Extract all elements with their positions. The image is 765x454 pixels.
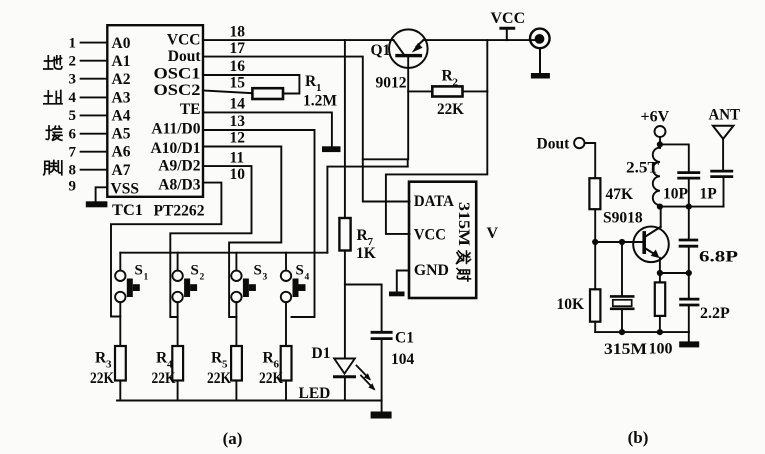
ground of circuit b (688, 332, 690, 341)
wire pin10 to S1 bottom (111, 183, 221, 317)
transistor Q1 circle (389, 29, 428, 68)
wire crystal bottom (621, 309, 623, 332)
inductor 2.5T coil (653, 147, 660, 206)
svg-text:2.2P: 2.2P (700, 305, 730, 322)
svg-text:15: 15 (230, 75, 246, 92)
LED D1 light arrows (357, 366, 370, 380)
pin 3 wire (81, 78, 108, 80)
wire VCC to R7 vertical (344, 40, 346, 218)
svg-text:10P: 10P (663, 186, 689, 203)
svg-text:D1: D1 (312, 345, 331, 362)
wire 2.2P bottom (688, 306, 690, 332)
wire R7 to LED anode (344, 251, 346, 359)
svg-text:VCC: VCC (491, 10, 526, 27)
output connector ring (530, 29, 550, 49)
transmitter module box 315M (409, 182, 476, 298)
crystal 315M plates (611, 295, 633, 298)
ground for TE (322, 146, 341, 152)
wire +6V down (659, 137, 661, 148)
svg-text:2: 2 (453, 77, 459, 89)
svg-text:(a): (a) (223, 429, 243, 448)
bottom rail of circuit a (117, 400, 382, 402)
resistor R4 body (172, 346, 183, 381)
antenna symbol (713, 126, 734, 139)
svg-text:GND: GND (414, 262, 449, 279)
resistor R1 body (252, 88, 283, 99)
svg-text:S: S (191, 263, 199, 279)
switch S4 (281, 253, 306, 346)
junction node crystal/rail (619, 329, 625, 335)
svg-text:3: 3 (69, 71, 77, 87)
svg-text:2: 2 (69, 53, 77, 69)
svg-text:3: 3 (263, 273, 268, 283)
wire pin15 OSC2 to R1 left lead (203, 91, 252, 94)
svg-text:6: 6 (274, 359, 280, 371)
svg-text:A11/D0: A11/D0 (151, 120, 200, 137)
pin 6 wire (81, 133, 108, 135)
svg-text:1: 1 (69, 35, 77, 51)
resistor R7 body (339, 218, 350, 251)
svg-text:A10/D1: A10/D1 (151, 140, 201, 157)
svg-text:315M: 315M (455, 202, 472, 246)
svg-text:A1: A1 (112, 53, 131, 70)
svg-text:13: 13 (230, 113, 246, 130)
wire pin11 to S2 bottom (170, 166, 251, 317)
module GND wire to ground (397, 271, 409, 292)
junction node bottom of coil (657, 204, 663, 210)
LED D1 triangle (334, 359, 355, 374)
svg-text:A3: A3 (112, 89, 131, 106)
svg-text:Dout: Dout (168, 48, 202, 65)
svg-text:4: 4 (69, 90, 77, 106)
ground below connector (531, 73, 550, 79)
svg-text:17: 17 (230, 40, 246, 57)
capacitor 6.8P plates (680, 239, 697, 242)
junction node 10P/collector net (686, 204, 692, 210)
wire horizontal B switch-net (327, 167, 407, 253)
svg-text:DATA: DATA (414, 193, 455, 210)
pin 8 wire (81, 169, 108, 171)
Chinese caption 址 (44, 91, 62, 104)
wire 100 to rail (659, 316, 661, 332)
transistor Q2 collector diagonal (646, 227, 661, 237)
wire R2 left lead (408, 90, 432, 92)
wire pin14 TE to ground (203, 112, 332, 146)
bottom rail of circuit b (595, 331, 689, 333)
output connector center dot (535, 34, 545, 44)
svg-text:22K: 22K (90, 370, 114, 387)
resistor 100 body (655, 282, 665, 316)
svg-text:5: 5 (222, 359, 228, 371)
switch common top rail (120, 252, 327, 254)
wire pin12 to S3 bottom (203, 147, 281, 318)
ground for module (389, 292, 405, 297)
svg-text:Q1: Q1 (371, 42, 391, 59)
svg-text:22K: 22K (259, 370, 283, 387)
junction node at crystal top (619, 239, 625, 245)
junction node emitter branch (657, 270, 663, 276)
wire Q1 emitter to VCC terminal (423, 39, 540, 41)
VCC tap symbol (506, 29, 508, 40)
svg-text:A4: A4 (112, 108, 131, 125)
capacitor 1P plates (712, 170, 732, 173)
pin 4 wire (81, 96, 108, 98)
svg-text:11: 11 (230, 149, 245, 166)
svg-text:S: S (135, 263, 143, 279)
junction node 100/rail (657, 329, 663, 335)
wire pin18 to Q1 collector (203, 39, 394, 41)
svg-text:12: 12 (230, 130, 246, 147)
svg-text:3: 3 (106, 359, 112, 371)
svg-text:10K: 10K (557, 296, 585, 313)
wire pin13 to S4 bottom (203, 130, 315, 317)
junction node 6.8P/2.2P (686, 270, 692, 276)
wire base node to transistor (595, 241, 643, 243)
wire Dout to 47K (585, 143, 596, 178)
pin 1 wire (81, 42, 108, 44)
wire base node to 10K (594, 242, 596, 289)
resistor R5 body (231, 346, 242, 381)
svg-text:4: 4 (305, 273, 310, 283)
svg-text:47K: 47K (606, 186, 634, 203)
Chinese caption 脚 (44, 161, 62, 175)
svg-text:A9/D2: A9/D2 (158, 157, 200, 174)
svg-text:A8/D3: A8/D3 (158, 177, 200, 194)
capacitor 2.2P plates (681, 298, 698, 301)
pin 7 wire (81, 151, 108, 153)
pin 9 VSS wire (96, 187, 108, 200)
wire R6 to rail (285, 381, 287, 401)
wire collector up (660, 207, 662, 227)
svg-text:S: S (296, 263, 304, 279)
wire collector net horizontal (660, 206, 724, 208)
svg-text:VCC: VCC (167, 31, 201, 48)
resistor 47K body (589, 178, 600, 209)
wire emitter node to 6.8P node (660, 272, 689, 274)
transistor Q2 S9018 circle (633, 227, 669, 263)
wire connector to ground (539, 48, 541, 73)
svg-text:5: 5 (69, 108, 77, 124)
resistor R3 body (115, 346, 126, 381)
svg-text:ANT: ANT (709, 107, 741, 124)
resistor R6 body (281, 346, 292, 381)
Chinese caption 地 (address pins) (44, 56, 62, 69)
svg-text:100: 100 (649, 341, 673, 358)
capacitor C1 plates (372, 331, 391, 334)
Chinese caption 接 (46, 126, 62, 140)
pin 5 wire (81, 114, 108, 116)
module vertical label 315M TX (455, 202, 472, 281)
svg-text:16: 16 (230, 58, 246, 75)
svg-text:14: 14 (230, 96, 246, 113)
svg-text:OSC1: OSC1 (154, 65, 201, 82)
LED D1 cathode bar (335, 375, 355, 378)
wire LED cathode to bottom rail (344, 377, 346, 401)
svg-text:1.2M: 1.2M (303, 93, 337, 110)
wire coil top to 10P (660, 144, 689, 171)
transistor Q1 collector diagonal (394, 40, 404, 54)
svg-text:A5: A5 (112, 126, 131, 143)
svg-text:22K: 22K (207, 370, 231, 387)
wire C1 top tap (345, 285, 382, 332)
ground for VSS pin 9 (86, 201, 108, 207)
svg-text:6: 6 (69, 126, 77, 142)
wire 1P bottom (723, 178, 725, 207)
svg-text:A6: A6 (112, 144, 131, 161)
IC U1 PT2262 body (107, 25, 203, 197)
transistor Q1 emitter diagonal with arrow (417, 40, 424, 46)
switch S3 (231, 253, 256, 346)
svg-text:PT2262: PT2262 (154, 203, 205, 220)
wire emitter down to 100 (659, 258, 661, 283)
svg-text:TC1: TC1 (112, 202, 143, 219)
svg-text:A7: A7 (112, 162, 131, 179)
svg-text:VCC: VCC (414, 227, 446, 244)
crystal 315M body (613, 300, 632, 306)
junction node at 47K/10K (592, 239, 598, 245)
svg-text:9012: 9012 (376, 75, 407, 92)
wire pin16 OSC1 to R1 right lead (203, 75, 299, 94)
Dout terminal circle (574, 138, 584, 148)
svg-text:6.8P: 6.8P (699, 249, 738, 266)
svg-text:1: 1 (144, 273, 149, 283)
capacitor 10P plates (679, 171, 699, 174)
svg-text:Dout: Dout (537, 136, 571, 153)
wire Q1 base down (363, 57, 408, 159)
svg-text:VSS: VSS (111, 180, 139, 197)
svg-text:A2: A2 (112, 71, 131, 88)
svg-text:S: S (254, 263, 262, 279)
svg-text:(b): (b) (628, 428, 649, 447)
svg-text:C1: C1 (395, 330, 414, 347)
wire 10P bottom (688, 180, 690, 207)
wire 47K to base node (594, 209, 596, 242)
transistor Q2 base bar (642, 231, 646, 254)
svg-text:10: 10 (230, 166, 246, 183)
svg-text:2: 2 (200, 273, 205, 283)
svg-text:315M: 315M (604, 341, 647, 358)
+6V terminal circle (655, 126, 666, 137)
svg-text:1K: 1K (356, 245, 376, 262)
ground at bottom rail (381, 401, 383, 412)
resistor R2 body (432, 86, 462, 96)
svg-text:104: 104 (391, 351, 415, 368)
transistor Q2 emitter diagonal with arrow (646, 249, 654, 254)
svg-text:4: 4 (167, 359, 173, 371)
switch S1 (115, 253, 140, 346)
wire C1 bottom (381, 340, 383, 401)
svg-text:TE: TE (180, 101, 201, 118)
wire 6.8P bottom (688, 248, 690, 273)
wire collector node to 6.8P (688, 207, 690, 239)
svg-text:18: 18 (230, 23, 246, 40)
svg-text:22K: 22K (437, 101, 464, 118)
wire R4 to rail (177, 381, 179, 401)
wire VCC branch down right side (386, 40, 487, 234)
svg-text:A0: A0 (112, 35, 131, 52)
svg-text:LED: LED (299, 385, 331, 402)
svg-text:1P: 1P (700, 186, 718, 203)
svg-text:2.5T: 2.5T (626, 160, 660, 177)
resistor 10K body (590, 289, 600, 321)
svg-text:+6V: +6V (641, 109, 670, 126)
switch S2 (172, 253, 197, 346)
wire R2 right lead (463, 90, 488, 92)
wire crystal top (621, 242, 623, 295)
svg-text:OSC2: OSC2 (154, 82, 201, 99)
svg-text:9: 9 (69, 179, 77, 195)
svg-text:7: 7 (69, 144, 77, 160)
Chinese 射 (457, 269, 471, 282)
wire base jog down to switch-net (407, 159, 409, 166)
svg-text:S9018: S9018 (603, 210, 643, 227)
wire R5 to rail (235, 381, 237, 401)
svg-text:V: V (487, 225, 499, 242)
Chinese 发 (457, 251, 471, 264)
wire R3 to rail (119, 381, 121, 401)
wire 2.2P top (688, 273, 690, 298)
svg-text:8: 8 (69, 162, 77, 178)
wire pin17 Dout down to DATA (203, 57, 410, 202)
pin 2 wire (81, 60, 108, 62)
transistor Q1 base bar (395, 54, 422, 57)
junction node top of coil (657, 141, 663, 147)
wire 10K to rail (594, 322, 596, 332)
svg-text:22K: 22K (152, 370, 176, 387)
